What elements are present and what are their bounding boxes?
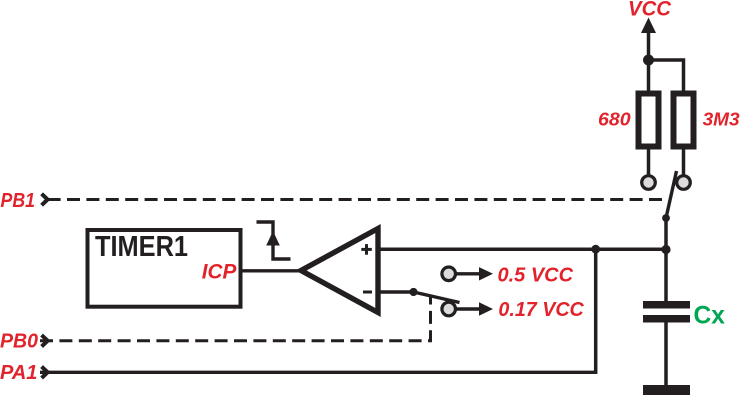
svg-text:680: 680	[598, 109, 631, 129]
svg-text:PA1: PA1	[0, 362, 37, 384]
svg-text:PB1: PB1	[1, 190, 36, 212]
svg-text:ICP: ICP	[202, 260, 238, 283]
svg-text:3M3: 3M3	[703, 109, 740, 129]
svg-text:Cx: Cx	[694, 301, 725, 329]
svg-text:0.17 VCC: 0.17 VCC	[498, 299, 584, 321]
svg-text:VCC: VCC	[628, 0, 672, 20]
svg-text:PB0: PB0	[0, 330, 38, 352]
svg-text:0.5 VCC: 0.5 VCC	[498, 265, 574, 287]
svg-text:TIMER1: TIMER1	[95, 231, 188, 263]
